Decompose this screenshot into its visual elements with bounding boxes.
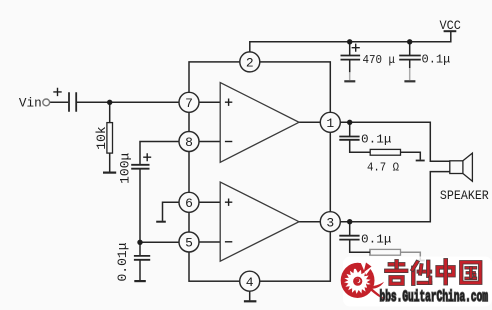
svg-text:3: 3 — [326, 215, 334, 230]
svg-text:2: 2 — [246, 56, 254, 71]
svg-text:4.7 Ω: 4.7 Ω — [367, 161, 399, 175]
svg-text:0.1μ: 0.1μ — [361, 132, 392, 146]
svg-text:470 μ: 470 μ — [363, 53, 396, 67]
svg-text:Vin: Vin — [19, 95, 42, 110]
svg-text:0.01μ: 0.01μ — [115, 242, 130, 281]
svg-text:5: 5 — [185, 236, 193, 251]
svg-text:10k: 10k — [94, 126, 109, 150]
svg-text:7: 7 — [185, 96, 193, 111]
svg-text:4: 4 — [246, 275, 254, 290]
svg-text:0.1μ: 0.1μ — [422, 52, 451, 66]
svg-text:VCC: VCC — [440, 18, 461, 33]
svg-text:6: 6 — [185, 196, 193, 211]
svg-text:1: 1 — [326, 116, 334, 131]
svg-text:bbs.GuitarChina.com: bbs.GuitarChina.com — [380, 288, 489, 306]
svg-text:SPEAKER: SPEAKER — [440, 188, 489, 203]
svg-text:100μ: 100μ — [118, 153, 133, 184]
svg-text:0.1μ: 0.1μ — [361, 233, 392, 247]
svg-text:8: 8 — [185, 135, 193, 150]
